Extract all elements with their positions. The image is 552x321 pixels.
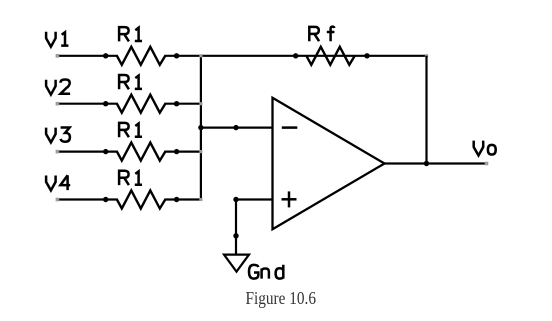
label Rf xyxy=(309,27,319,41)
svg-text:Figure 10.6: Figure 10.6 xyxy=(246,288,317,308)
label Gnd xyxy=(249,265,258,279)
resistor R1 (row 4) xyxy=(117,191,165,209)
resistor R1 (row 2) xyxy=(117,95,165,113)
junction dot non-inverting corner xyxy=(233,197,238,202)
wire V2 input row xyxy=(59,103,118,105)
label V2 xyxy=(46,80,56,95)
junction dot right Rf xyxy=(364,53,369,58)
wire non-inverting input xyxy=(235,198,273,200)
label V4 xyxy=(46,176,56,191)
label Vo xyxy=(474,141,484,156)
wire output xyxy=(385,162,487,164)
junction dot left Rf xyxy=(293,53,298,58)
label R1 (row 2) xyxy=(119,75,129,89)
label V1 xyxy=(46,32,56,47)
junction dot left R1 row 3 xyxy=(103,149,108,154)
node bus row3 joint xyxy=(199,150,202,153)
resistor R1 (row 1) xyxy=(117,47,165,65)
wire V3 input row xyxy=(59,151,118,153)
junction dot right R1 row 3 xyxy=(174,149,179,154)
wire V4 input row xyxy=(59,198,118,200)
resistor R1 (row 3) xyxy=(117,143,165,161)
op-amp plus sign xyxy=(282,198,297,201)
node V1 terminal xyxy=(56,54,60,58)
node V4 terminal xyxy=(56,198,60,202)
node feedback corner xyxy=(425,54,428,57)
label R1 (row 4) xyxy=(119,171,129,185)
wire V1 input row xyxy=(59,55,118,57)
resistor Rf xyxy=(306,47,354,65)
node bus top corner xyxy=(199,54,202,57)
ground symbol xyxy=(224,255,249,272)
node V2 terminal xyxy=(56,102,60,106)
junction dot right R1 row 1 xyxy=(174,53,179,58)
wire ground drop xyxy=(235,200,237,255)
wire inverting input xyxy=(201,126,273,128)
node Vo terminal xyxy=(485,162,489,166)
label R1 (row 3) xyxy=(119,123,129,137)
node bus row2 joint xyxy=(199,102,202,105)
node V3 terminal xyxy=(56,150,60,154)
wire feedback vertical xyxy=(425,56,427,164)
junction dot left R1 row 2 xyxy=(103,101,108,106)
label R1 (row 1) xyxy=(119,27,129,41)
op-amp minus sign xyxy=(282,126,298,129)
junction dot right R1 row 2 xyxy=(174,101,179,106)
junction dot inverting mid xyxy=(233,125,238,130)
node bus bottom corner xyxy=(199,198,202,201)
junction dot left R1 row 4 xyxy=(103,197,108,202)
wire summing bus xyxy=(200,55,202,201)
junction dot right R1 row 4 xyxy=(174,197,179,202)
junction dot output/feedback xyxy=(424,161,429,166)
label V3 xyxy=(46,128,56,143)
junction dot left R1 row 1 xyxy=(103,53,108,58)
junction dot bus/inverting xyxy=(198,125,203,130)
op-amp U1 xyxy=(273,98,385,229)
junction dot ground wire xyxy=(233,233,238,238)
